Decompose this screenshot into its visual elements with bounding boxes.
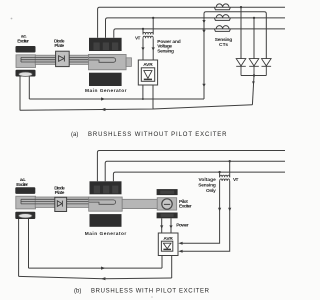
svg-text:CTs: CTs	[219, 42, 228, 48]
diode plate box (a)	[56, 51, 70, 66]
arrow down on riser at line3 (a)	[202, 30, 205, 34]
wire: pilot exciter power lead left (b)	[161, 218, 163, 233]
diode plate box (b)	[55, 197, 67, 211]
wire: VT primary lead right (b)	[229, 161, 231, 177]
AVR thyristor symbol (a)	[144, 71, 152, 79]
wire: generator terminal phase 3 to bus line 3 (a)	[114, 29, 285, 38]
svg-text:BRUSHLESS WITH PILOT EXCITER: BRUSHLESS WITH PILOT EXCITER	[91, 289, 210, 295]
wire: VT secondary right down to AVR (b)	[181, 181, 230, 251]
main generator rotor (b)	[89, 197, 123, 211]
main generator rotor (a)	[89, 54, 127, 69]
svg-text:Plate: Plate	[55, 190, 65, 196]
svg-text:(b): (b)	[74, 289, 81, 295]
shaft exciter to generator (b)	[35, 197, 89, 207]
arrow down on riser lower (a)	[202, 84, 205, 88]
wire: VT primary lead right (a)	[152, 18, 154, 35]
wire: line1 tap down to diode 1 (a)	[240, 7, 242, 58]
shaft generator to pilot exciter (b)	[122, 199, 157, 208]
arrow into AVR lower (b)	[178, 250, 182, 253]
wire: generator terminal phase 1 to bus line 1 (b)	[97, 151, 285, 182]
a.c. exciter armature ellipse (a)	[19, 72, 33, 76]
VT winding symbol (b)	[220, 175, 230, 181]
stator slots top (b)	[94, 186, 118, 194]
wire: compounding riser from wire A over to diode 3 (a)	[204, 12, 266, 99]
AVR inner box (b)	[161, 241, 172, 251]
pilot exciter stator top bar (b)	[157, 189, 178, 195]
AVR thyristor symbol (b)	[163, 243, 171, 249]
VT winding symbol (a)	[143, 32, 153, 38]
arrow down power lead left (b)	[160, 225, 163, 228]
svg-text:Power: Power	[176, 223, 189, 229]
rotating diode symbol (a)	[59, 56, 65, 62]
a.c. exciter stator bottom bar (b)	[15, 212, 35, 219]
sensing CT on line 3 (a)	[214, 26, 230, 32]
svg-text:Sensing: Sensing	[157, 48, 174, 54]
label: Diode Plate (b)	[54, 186, 65, 196]
wire: pilot exciter power lead right (b)	[170, 218, 172, 233]
arrow down on VT secondary right (b)	[228, 208, 231, 211]
svg-text:Main Generator: Main Generator	[85, 231, 127, 237]
a.c. exciter rotor (a)	[16, 55, 36, 68]
pilot exciter stator bottom bar (b)	[157, 213, 178, 219]
AVR inner box (a)	[141, 68, 154, 82]
arrow right on wire A (a)	[101, 97, 105, 100]
arrow down power lead right (b)	[169, 225, 172, 228]
arrow down on VT secondary right (a)	[152, 47, 155, 50]
shaft exciter to generator (a)	[35, 55, 89, 64]
main generator stator top block (b)	[90, 181, 122, 194]
a.c. exciter stator top bar (b)	[15, 187, 35, 194]
diode D3 (a)	[262, 59, 272, 76]
label: a.c. Exciter (b)	[16, 178, 28, 188]
svg-text:Main Generator: Main Generator	[85, 88, 127, 94]
arrow down on rectifier output (a)	[252, 81, 255, 84]
wire: line2 tap down to diode 2 (a)	[253, 18, 255, 59]
shaft winding leads (b)	[21, 199, 89, 204]
caption (b)	[74, 289, 210, 295]
label: Diode Plate (a)	[54, 38, 65, 49]
generator shaft stub right (a)	[126, 58, 131, 67]
wire: exciter field lead left down (a)	[19, 77, 21, 111]
svg-text:Exciter: Exciter	[16, 182, 28, 188]
svg-text:VT: VT	[135, 36, 140, 42]
AVR box (b)	[158, 233, 178, 256]
wire: VT primary lead left (a)	[142, 29, 144, 35]
rotor field winding loop (a)	[89, 58, 116, 63]
svg-text:Exciter: Exciter	[17, 38, 29, 44]
wire: exciter field lead left down (b)	[18, 219, 20, 276]
main generator stator bottom block (a)	[89, 73, 122, 86]
svg-text:AVR: AVR	[143, 62, 153, 68]
main generator stator bottom block (b)	[90, 214, 122, 227]
a.c. exciter rotor (b)	[16, 196, 36, 209]
wire: rectifier common cathode bus (a)	[241, 75, 266, 77]
node: tap on line 2 (a)	[253, 17, 255, 19]
label: Pilot Exciter (b)	[179, 199, 192, 210]
rotor field winding loop (b)	[89, 200, 116, 204]
pilot exciter body (b)	[157, 198, 177, 210]
wire: generator terminal phase 1 to bus line 1 (a)	[98, 7, 285, 38]
node: AVR left output joins field wire A (a)	[142, 98, 144, 100]
svg-text:Sensing: Sensing	[198, 182, 216, 188]
label: a.c. Exciter (a)	[17, 35, 29, 45]
wire: field wire B (a)	[20, 105, 253, 111]
a.c. exciter stator bottom bar (a)	[16, 70, 36, 77]
sensing CT on line 1 (a)	[214, 4, 230, 10]
wire: AVR output right (a)	[152, 85, 154, 109]
wire: VT secondary lead left to AVR (a)	[142, 38, 144, 60]
diode D1 (a)	[236, 59, 246, 76]
caption (a)	[71, 132, 227, 138]
wire: generator terminal phase 3 to bus line 3 (b)	[113, 172, 285, 181]
wire: AVR output right (b)	[171, 256, 173, 279]
svg-text:Only: Only	[206, 188, 216, 194]
node: VT tap on line 3 (b)	[218, 171, 220, 173]
label: Sensing CTs (a)	[215, 37, 232, 48]
arrow down on riser at line2 (a)	[202, 20, 205, 24]
svg-text:Exciter: Exciter	[179, 204, 192, 210]
wire: generator terminal phase 2 to bus line 2 (b)	[105, 161, 285, 181]
wire: rectifier output down to wire B (a)	[252, 76, 254, 105]
svg-text:BRUSHLESS WITHOUT PILOT EXCITE: BRUSHLESS WITHOUT PILOT EXCITER	[88, 132, 227, 138]
wire: field wire B (b)	[19, 276, 172, 278]
pilot exciter bottom slot (b)	[161, 214, 174, 217]
pilot exciter top slot (b)	[160, 191, 174, 194]
arrow right on wire A (b)	[101, 267, 105, 270]
svg-text:VT: VT	[233, 177, 238, 183]
wire: field wire A (b)	[29, 267, 163, 269]
node: VT primary tap on line 3 (a)	[142, 28, 144, 30]
pilot exciter PMG circle (b)	[162, 199, 172, 209]
node: VT tap on line 2 (b)	[229, 160, 231, 162]
a.c. exciter armature ellipse (b)	[19, 214, 33, 218]
a.c. exciter stator top bar (a)	[16, 46, 36, 53]
label: Power and Voltage Sensing (a)	[157, 39, 180, 55]
wire: AVR output left (b)	[161, 256, 163, 269]
sensing CT on line 2 (a)	[214, 15, 230, 21]
wire: AVR output left (a)	[142, 85, 144, 99]
svg-text:Plate: Plate	[54, 43, 64, 49]
arrow down on VT secondary left (a)	[141, 47, 144, 50]
arrow left on wire B (a)	[101, 108, 105, 111]
svg-text:Sensing: Sensing	[215, 37, 232, 43]
node: VT primary tap on line 2 (a)	[152, 17, 154, 19]
label: Voltage Sensing Only (b)	[198, 177, 216, 194]
main generator stator top block (a)	[89, 38, 122, 51]
wire: field wire A (a)	[29, 98, 204, 100]
scan speck	[11, 18, 13, 20]
wire: exciter field lead right down (a)	[28, 77, 30, 100]
diode D2 (a)	[249, 59, 259, 76]
arrow left on wire B (b)	[101, 277, 105, 280]
stator slots top (a)	[94, 43, 119, 51]
wire: VT secondary lead right to AVR (a)	[152, 38, 154, 60]
AVR box (a)	[138, 60, 157, 85]
wire: exciter field lead right down (b)	[28, 219, 30, 268]
wire: generator terminal phase 2 to bus line 2 (a)	[106, 18, 286, 38]
pilot exciter PMG center detail (b)	[164, 203, 170, 205]
node: tap on line 1 (a)	[240, 6, 242, 8]
node: rectifier output junction (a)	[253, 74, 255, 76]
shaft winding leads (a)	[21, 57, 89, 62]
arrow into AVR upper (b)	[178, 242, 182, 245]
scan speck 2	[151, 296, 153, 298]
svg-text:(a): (a)	[71, 132, 78, 138]
wire: VT secondary left down to AVR (b)	[181, 181, 220, 243]
arrow down on VT secondary left (b)	[218, 208, 221, 211]
svg-text:Voltage: Voltage	[199, 177, 217, 183]
rotating diode symbol (b)	[57, 201, 62, 207]
wire: VT primary lead left (b)	[219, 172, 221, 177]
